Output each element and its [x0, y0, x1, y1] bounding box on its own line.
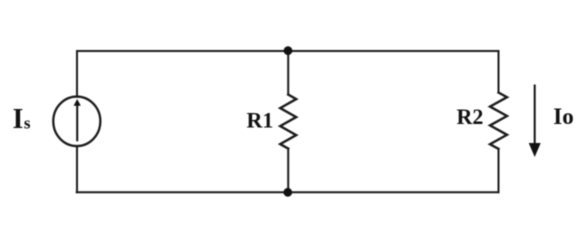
wire right bottom segment	[498, 149, 500, 192]
current source arrow	[76, 106, 78, 142]
wire left bottom segment	[76, 146, 78, 192]
current source Is circle	[53, 97, 100, 147]
wire middle top segment	[287, 51, 289, 95]
svg-text:R2: R2	[457, 104, 484, 129]
svg-text:Is: Is	[13, 104, 31, 135]
svg-text:R1: R1	[247, 108, 274, 133]
wire bottom horizontal	[77, 191, 499, 193]
wire top horizontal	[77, 50, 499, 52]
output current Io arrow	[534, 85, 536, 144]
resistor R1 zigzag	[280, 95, 296, 149]
node junction dot bottom	[283, 188, 292, 197]
svg-text:Io: Io	[553, 104, 573, 129]
node junction dot top	[284, 46, 293, 55]
wire middle bottom segment	[287, 149, 289, 193]
resistor R2 zigzag	[490, 93, 507, 149]
wire right top segment	[498, 51, 500, 93]
wire left top segment	[76, 51, 78, 97]
